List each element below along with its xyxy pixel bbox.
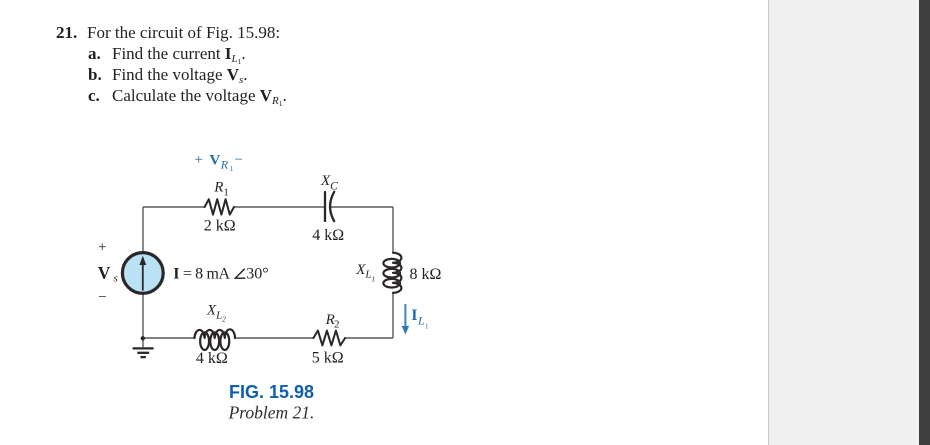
svg-text:5 kΩ: 5 kΩ [312,349,344,366]
svg-text:L: L [417,313,425,327]
svg-text:8 kΩ: 8 kΩ [410,266,442,283]
svg-text:Problem 21.: Problem 21. [228,403,315,423]
svg-text:−: − [235,152,243,168]
svg-text:1: 1 [223,186,229,198]
svg-text:30°: 30° [246,265,268,282]
svg-text:+: + [195,152,203,168]
svg-text:I: I [411,307,417,324]
svg-text:V: V [210,152,221,168]
svg-text:1: 1 [425,322,429,330]
svg-text:+: + [98,240,106,256]
svg-text:V: V [98,263,111,283]
svg-text:4 kΩ: 4 kΩ [312,227,344,244]
svg-text:I = 8 mA: I = 8 mA [173,265,230,282]
svg-text:1: 1 [230,164,234,173]
svg-text:XL1: XL1 [355,262,375,283]
svg-text:XC: XC [320,173,338,192]
svg-text:XL2: XL2 [206,303,226,324]
svg-text:FIG. 15.98: FIG. 15.98 [229,382,314,402]
svg-text:−: − [98,290,106,306]
svg-text:2: 2 [334,318,340,330]
svg-text:4 kΩ: 4 kΩ [196,350,228,367]
svg-text:R: R [213,180,223,196]
svg-text:2 kΩ: 2 kΩ [204,218,236,235]
svg-text:R: R [220,157,229,171]
svg-text:s: s [114,273,118,285]
